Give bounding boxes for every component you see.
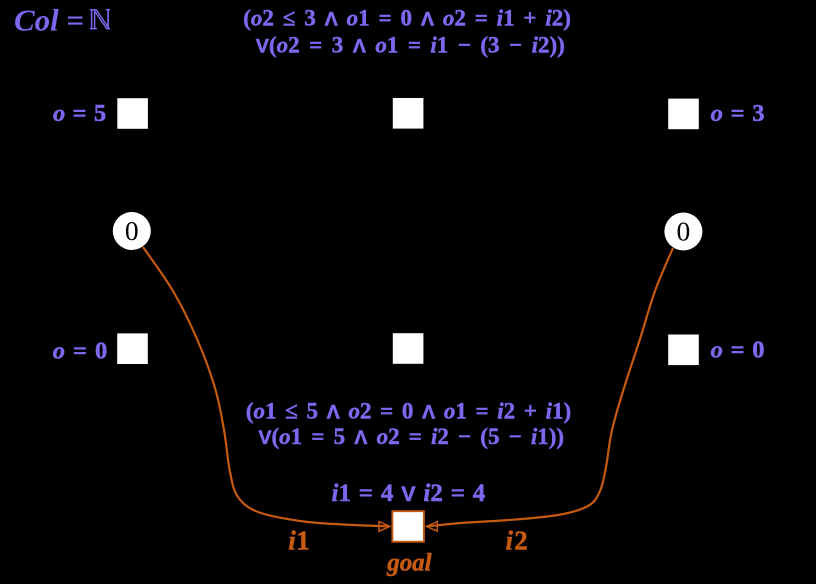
svg-text:o = 0: o = 0 — [711, 337, 765, 364]
svg-text:(o1 ≤ 5 Λ o2 = 0 Λ o1 = i2 + i: (o1 ≤ 5 Λ o2 = 0 Λ o1 = i2 + i1) — [246, 399, 571, 424]
svg-text:0: 0 — [125, 215, 139, 246]
place circle left with token 0 — [113, 212, 151, 250]
svg-text:V(o2 = 3 Λ o1 = i1 − (3 − i2)): V(o2 = 3 Λ o1 = i1 − (3 − i2)) — [256, 32, 565, 57]
blackboard bold N — [90, 9, 110, 29]
place square o=0 left — [117, 333, 148, 364]
svg-text:o = 0: o = 0 — [53, 337, 108, 364]
svg-text:i1: i1 — [288, 525, 310, 555]
transition arrow i1 from left circle to goal — [143, 247, 390, 531]
place square top-center — [393, 98, 424, 129]
svg-text:i2: i2 — [505, 526, 529, 556]
svg-text:(o2 ≤ 3 Λ o1 = 0 Λ o2 = i1 + i: (o2 ≤ 3 Λ o1 = 0 Λ o2 = i1 + i2) — [243, 6, 571, 31]
svg-text:goal: goal — [386, 549, 431, 576]
svg-text:o = 3: o = 3 — [711, 100, 765, 127]
place square o=0 right — [668, 335, 699, 366]
svg-text:V(o1 = 5 Λ o2 = i2 − (5 − i1)): V(o1 = 5 Λ o2 = i2 − (5 − i1)) — [258, 424, 564, 449]
svg-text:Col =: Col = — [14, 2, 84, 37]
place square o=3 — [668, 99, 699, 130]
transition arrow i2 from right circle to goal — [426, 248, 673, 531]
place square o=5 — [117, 98, 148, 129]
goal place square — [392, 511, 424, 542]
place square bottom-center — [393, 333, 424, 364]
place circle right with token 0 — [664, 213, 702, 251]
svg-text:0: 0 — [677, 215, 691, 246]
svg-text:i1 = 4 V i2 = 4: i1 = 4 V i2 = 4 — [332, 480, 486, 507]
svg-text:o = 5: o = 5 — [53, 100, 106, 127]
